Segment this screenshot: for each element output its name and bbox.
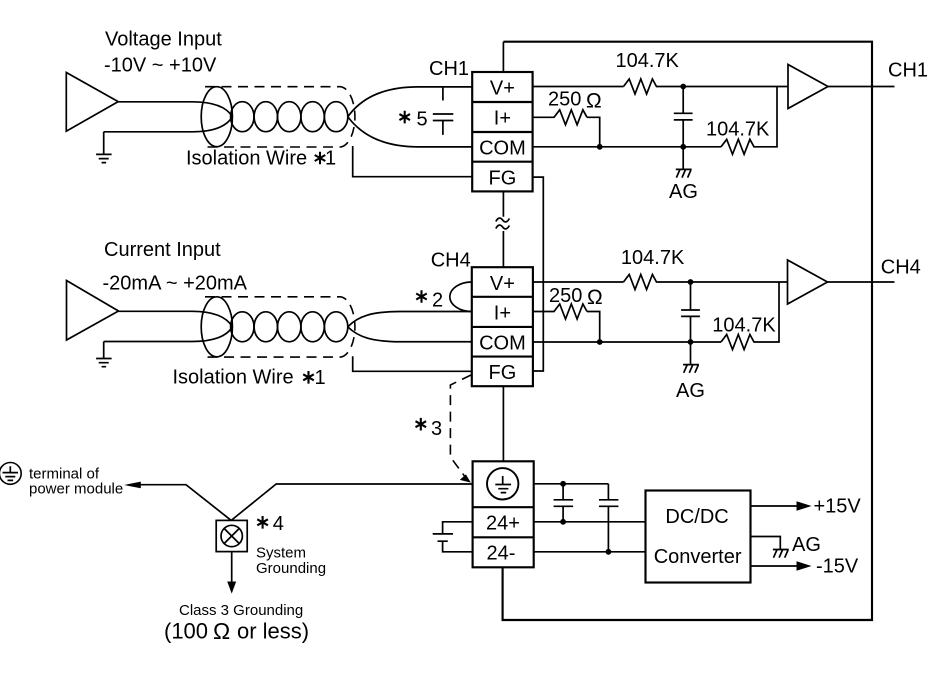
dashed wire FG to earth terminal (*3) (450, 375, 471, 481)
svg-text:COM: COM (479, 332, 526, 354)
system grounding circle-X (221, 525, 242, 546)
wire CH4 output (828, 281, 895, 283)
node I+/COM junction (CH4) (597, 339, 603, 345)
node cap1/24+ (560, 519, 566, 525)
label (100 ohm or less) (164, 618, 309, 644)
svg-text:4: 4 (273, 513, 284, 535)
svg-text:Converter: Converter (654, 546, 742, 568)
wire +15V (751, 505, 799, 507)
svg-text:I+: I+ (494, 303, 511, 325)
svg-text:3: 3 (431, 418, 442, 440)
arrowhead (to terminal of power module) (124, 482, 141, 489)
wire cable to V+ (CH1) (348, 87, 472, 117)
label 250 ohm (CH4) (549, 285, 603, 309)
svg-text:+15V: +15V (814, 496, 862, 518)
svg-text:I+: I+ (494, 108, 511, 130)
wire AG (power) (751, 537, 781, 550)
label *4 (257, 513, 284, 535)
dashed shield outline CH1 (205, 87, 355, 147)
wire bottom (ground to cable CH4) (104, 327, 233, 342)
svg-text:COM: COM (479, 138, 526, 160)
svg-text:(100: (100 (164, 619, 208, 644)
dashed shield outline CH4 (205, 297, 355, 357)
wire FG CH1 to FG CH4 (533, 177, 544, 371)
filter capacitor CH4 (681, 282, 700, 342)
svg-text:AG: AG (792, 534, 821, 556)
svg-text:104.7K: 104.7K (712, 315, 776, 337)
twisted pair loops CH4 (231, 312, 348, 342)
wire 250ohm to COM (CH1) (587, 117, 600, 147)
DC/DC converter box (646, 491, 751, 583)
node cap2/24- (606, 549, 612, 555)
resistor 250 ohm (CH4) (533, 304, 587, 319)
capacitor *5 (433, 87, 454, 135)
svg-text:-15V: -15V (816, 556, 859, 578)
wire 24+ to DC/DC (534, 521, 646, 523)
wire V+ top to module border (502, 42, 504, 72)
arrowhead +15V (797, 501, 812, 511)
power terminal block (473, 461, 534, 567)
resistor 104.7K (CH1 feedback) (721, 87, 777, 155)
label *2 (416, 290, 443, 312)
ground (input 2) (96, 342, 112, 367)
wire COM rail CH4 (533, 341, 721, 343)
source amplifier triangle (current input) (67, 281, 119, 341)
svg-text:Grounding: Grounding (256, 560, 326, 577)
svg-text:CH1: CH1 (888, 60, 928, 82)
svg-text:1: 1 (325, 148, 336, 170)
svg-text:V+: V+ (490, 78, 515, 100)
svg-text:or less): or less) (237, 619, 309, 644)
op-amp CH4 (788, 260, 828, 304)
svg-text:DC/DC: DC/DC (665, 506, 728, 528)
svg-text:AG: AG (676, 380, 705, 402)
svg-text:Isolation Wire: Isolation Wire (186, 148, 307, 170)
AG ground (power) (773, 550, 789, 558)
svg-text:2: 2 (432, 290, 443, 312)
capacitor C2 (earth to 24-) (599, 484, 618, 552)
twisted pair loops CH1 (231, 102, 348, 132)
label *1 (CH4) (303, 367, 325, 389)
protective earth symbol (module) (487, 468, 518, 499)
svg-text:Ω: Ω (213, 618, 230, 644)
wire 24- to DC/DC (534, 551, 646, 553)
wire shield to FG (CH4) (353, 356, 472, 371)
wire FG CH4 to earth cell (502, 386, 504, 461)
svg-text:Class 3 Grounding: Class 3 Grounding (179, 602, 303, 619)
cable shield ellipse CH1 (201, 87, 232, 147)
wire cable to I+ (CH4) (348, 312, 472, 327)
svg-text:24-: 24- (487, 542, 516, 564)
source amplifier triangle (voltage input) (66, 73, 118, 132)
wire system grounding to power module terminal (138, 485, 231, 521)
wire COM rail CH1 (533, 146, 721, 148)
AG ground CH4 (683, 342, 699, 373)
svg-text:104.7K: 104.7K (616, 50, 680, 72)
svg-text:Current Input: Current Input (104, 239, 221, 261)
node V+/cap (CH4) (688, 279, 694, 285)
resistor 250 ohm (CH1) (533, 110, 587, 125)
svg-text:System: System (256, 545, 306, 562)
svg-text:AG: AG (669, 181, 698, 203)
jumper loop V+ to I+ (CH4) (450, 282, 472, 312)
svg-text:CH1: CH1 (429, 58, 469, 80)
label *3 (416, 418, 443, 440)
wire -15V (751, 565, 799, 567)
svg-text:250: 250 (548, 89, 581, 111)
svg-text:FG: FG (489, 362, 517, 384)
node earth/cap1 (560, 481, 566, 487)
system grounding box (216, 520, 247, 551)
arrowhead (*3) (460, 474, 471, 482)
svg-text:Ω: Ω (586, 90, 602, 113)
terminal block CH1 (472, 72, 532, 191)
svg-text:CH4: CH4 (431, 250, 471, 272)
node I+/COM junction (CH1) (597, 144, 603, 150)
svg-text:24+: 24+ (486, 513, 520, 535)
svg-text:CH4: CH4 (881, 257, 921, 279)
continuation squiggle between CH1 and CH4 (496, 191, 510, 267)
node COM/cap (CH4) (688, 339, 694, 345)
ground (input 1) (96, 132, 112, 163)
label 250 ohm (CH1) (548, 89, 602, 113)
op-amp CH1 (788, 65, 828, 109)
wire system grounding to class-3 ground (231, 551, 233, 584)
cable shield ellipse CH4 (201, 297, 232, 357)
node COM/cap (CH1) (680, 144, 686, 150)
resistor 104.7K (CH4 feedback) (721, 282, 779, 350)
wire top (source to cable CH1) (118, 102, 232, 117)
svg-text:5: 5 (417, 109, 428, 131)
filter capacitor CH1 (674, 87, 693, 147)
wire V+ rail CH4 (533, 281, 624, 283)
svg-text:Isolation Wire: Isolation Wire (173, 367, 294, 389)
wire cable to COM (CH4) (348, 327, 472, 342)
wire bottom (ground to cable CH1) (104, 117, 233, 132)
svg-text:FG: FG (489, 167, 517, 189)
wire cable to COM (CH1) (348, 117, 472, 147)
wire top (source to cable CH4) (119, 311, 233, 327)
svg-text:104.7K: 104.7K (621, 247, 685, 269)
wire CH1 output (828, 86, 895, 88)
protective earth symbol (power module terminal) (0, 463, 21, 485)
wire earth cell to system grounding (231, 484, 472, 520)
svg-text:1: 1 (315, 367, 326, 389)
AG ground CH1 (676, 147, 692, 178)
arrowhead (class 3 grounding) (227, 582, 236, 594)
capacitor C1 (earth to 24+) (554, 484, 574, 522)
module border (503, 42, 872, 620)
wire V+ rail CH1 (533, 86, 624, 88)
svg-text:Voltage Input: Voltage Input (105, 29, 222, 51)
svg-text:-10V ~ +10V: -10V ~ +10V (104, 55, 217, 77)
terminal block CH4 (472, 267, 533, 386)
battery 24V (433, 522, 473, 552)
resistor 104.7K (CH1 input) (624, 79, 789, 94)
resistor 104.7K (CH4 input) (624, 275, 788, 290)
svg-text:V+: V+ (490, 273, 515, 295)
wire shield to FG (CH1) (353, 146, 473, 177)
label *5 (399, 109, 427, 131)
arrowhead -15V (797, 561, 812, 571)
node V+/cap (CH1) (680, 84, 686, 90)
svg-text:104.7K: 104.7K (706, 119, 770, 141)
svg-text:power module: power module (29, 481, 123, 498)
svg-text:250: 250 (549, 285, 582, 307)
svg-text:-20mA ~ +20mA: -20mA ~ +20mA (103, 273, 248, 295)
svg-text:Ω: Ω (587, 286, 603, 309)
label *1 (CH1) (315, 148, 336, 170)
wire earth cell to caps (534, 483, 609, 485)
wire 250ohm to COM (CH4) (587, 312, 600, 343)
